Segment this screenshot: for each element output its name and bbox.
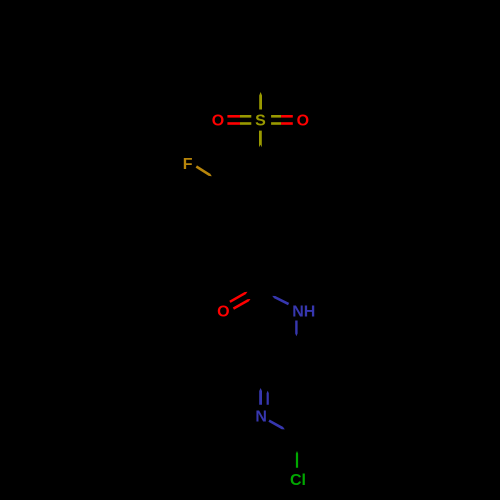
- S=O double bond left (olive S half): [240, 115, 251, 125]
- fluorine-ring bond (F half, gold): [196, 165, 212, 176]
- svg-text:O: O: [217, 304, 229, 321]
- pyridine N1=C2 double bond inner line (N half, blue): [267, 391, 269, 405]
- sulfur S label: [255, 113, 266, 130]
- oxygen O label right: [297, 113, 309, 130]
- fluorine F label: [183, 156, 193, 173]
- S=O double bond left (red O half): [227, 115, 240, 125]
- pyridine nitrogen N label: [255, 409, 267, 426]
- svg-text:Cl: Cl: [290, 472, 306, 489]
- svg-text:O: O: [212, 113, 224, 130]
- svg-text:O: O: [297, 113, 309, 130]
- svg-text:NH: NH: [292, 304, 315, 321]
- svg-text:F: F: [183, 156, 193, 173]
- amide NH label: [292, 304, 315, 321]
- methyl-sulfur bond (S half, olive): [259, 92, 262, 110]
- pyridine N1=C2 double bond main line (N half, blue): [259, 388, 262, 405]
- carbonyl C=O double bond (red O half): [229, 292, 250, 310]
- oxygen O label left: [212, 113, 224, 130]
- pyridine N1-C6 bond (N half, blue): [268, 420, 284, 430]
- amide N - pyridine C3 bond (N half, blue): [295, 321, 297, 337]
- sulfur-ring bond (S half, olive): [259, 131, 262, 148]
- svg-text:S: S: [255, 113, 266, 130]
- chlorine Cl label: [290, 472, 306, 489]
- S=O double bond right (red O half): [281, 115, 293, 125]
- chlorine-ring bond (Cl half, green): [296, 451, 298, 468]
- amide C-N bond (N half, blue): [272, 296, 289, 305]
- S=O double bond right (olive S half): [271, 115, 281, 125]
- svg-text:N: N: [255, 409, 267, 426]
- carbonyl oxygen O label: [217, 304, 229, 321]
